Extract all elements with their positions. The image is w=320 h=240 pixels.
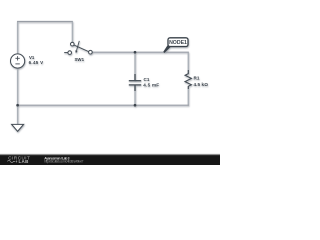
wire switch drop (vertical)	[71, 22, 73, 42]
left throw circle	[68, 51, 72, 55]
right throw circle	[89, 50, 93, 54]
svg-text:SW1: SW1	[75, 57, 85, 62]
junction dot at ground tee	[16, 104, 19, 107]
voltage source V1	[11, 54, 25, 68]
wire right rail upper (vertical)	[187, 53, 189, 74]
wire top run (horizontal)	[17, 21, 73, 23]
switch SW1	[64, 41, 92, 54]
svg-text:NODE1: NODE1	[169, 40, 187, 46]
wire switch to right corner (horizontal)	[92, 51, 189, 53]
wire capacitor bottom stem (vertical)	[134, 85, 136, 105]
wire left rail lower (vertical)	[17, 68, 19, 105]
svg-text:V1: V1	[29, 55, 35, 60]
footer bar	[0, 154, 220, 165]
blade	[70, 43, 89, 51]
wire right rail lower (vertical)	[187, 86, 189, 105]
capacitor C1	[129, 74, 141, 91]
svg-text:R1: R1	[194, 75, 200, 80]
CircuitLab logo bolt	[16, 160, 18, 163]
wire left rail upper (vertical)	[17, 21, 19, 54]
ground	[12, 124, 24, 131]
node flag NODE1	[163, 38, 188, 53]
junction dot at capacitor bottom	[134, 104, 137, 107]
wire capacitor top stem (vertical)	[134, 53, 136, 81]
resistor R1	[185, 70, 191, 89]
svg-text:http://circuitlab.com/c4b36nz4: http://circuitlab.com/c4b36nz49kx7/	[44, 160, 83, 164]
svg-text:LAB: LAB	[19, 159, 30, 164]
junction dot at capacitor top	[134, 51, 137, 54]
svg-text:4.5 kΩ: 4.5 kΩ	[194, 82, 209, 87]
wire ground stem (vertical)	[17, 105, 19, 124]
svg-text:6.45 V: 6.45 V	[29, 60, 44, 65]
wire bottom rail (horizontal)	[17, 104, 189, 106]
CircuitLab logo waveform	[7, 160, 15, 162]
svg-text:C1: C1	[144, 77, 150, 82]
pivot circle	[71, 42, 75, 46]
left throw stub	[64, 52, 68, 54]
svg-text:4.5 mF: 4.5 mF	[143, 82, 159, 87]
actuator arrow	[77, 41, 80, 51]
